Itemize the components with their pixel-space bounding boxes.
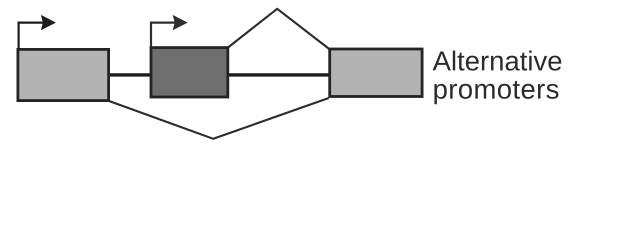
exon box (right, light gray) (330, 49, 422, 97)
promoter arrow 2 (bent arrow over middle exon) (151, 15, 188, 47)
label: Alternative promoters (433, 50, 562, 104)
exon box (left, light gray) (18, 49, 109, 100)
wire (100, 73, 335, 76)
exon box (middle, dark gray) (151, 48, 228, 97)
wire (lower alternative splice path, v-shape) (109, 98, 329, 139)
wire (upper alternative splice path, ^-shape) (228, 9, 329, 49)
promoter arrow 1 (bent arrow over left exon) (19, 15, 56, 49)
